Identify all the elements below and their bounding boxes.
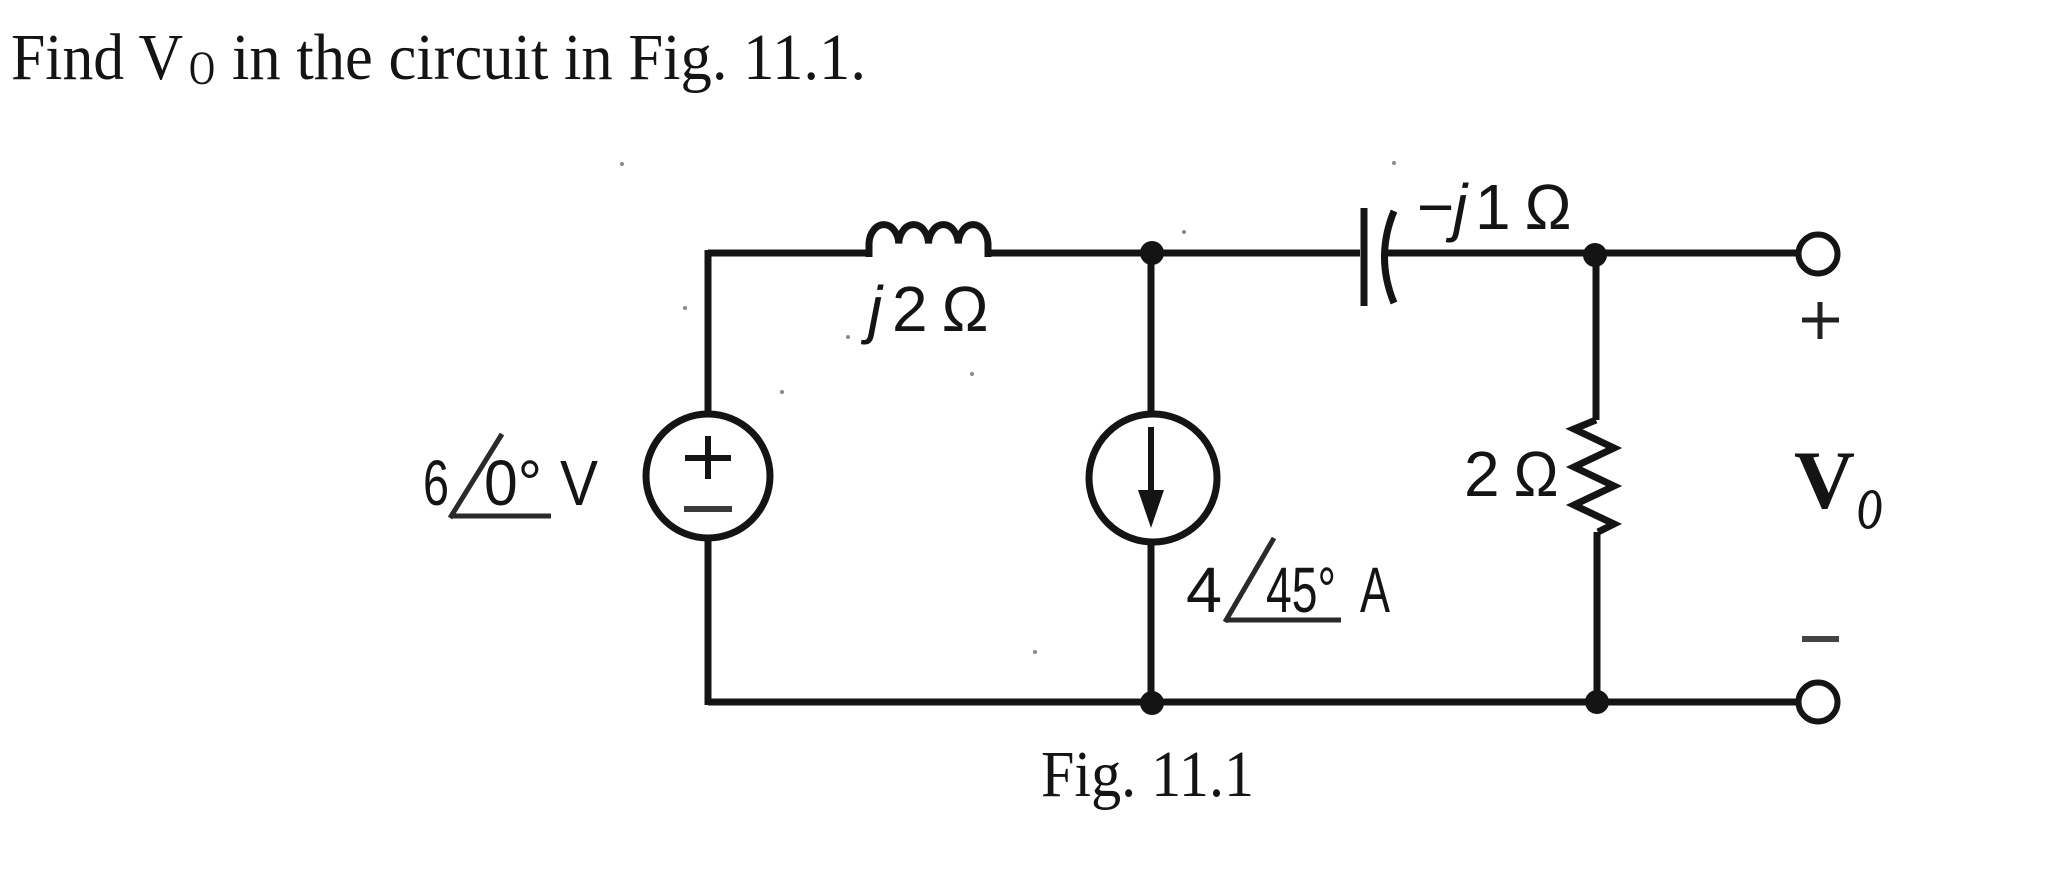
svg-text:Ω: Ω (1524, 171, 1572, 243)
terminal top right (1799, 235, 1838, 274)
current source I1 circle (1089, 414, 1217, 542)
title text (11, 21, 866, 95)
wire right vertical lower (1594, 532, 1601, 702)
inductor L1 j2 ohm (869, 225, 988, 257)
svg-text:−: − (1417, 171, 1454, 243)
dust specks (620, 161, 1396, 654)
svg-text:2: 2 (1464, 438, 1500, 510)
angle symbol for 6 angle 0 (450, 434, 551, 518)
svg-text:in the circuit in Fig. 11.1.: in the circuit in Fig. 11.1. (232, 21, 866, 94)
svg-text:V: V (560, 447, 598, 519)
capacitor C1 left plate (1361, 208, 1368, 306)
node C junction dot bottom middle (1140, 691, 1164, 715)
voltage source plus sign (685, 436, 731, 479)
svg-text:1: 1 (1475, 171, 1511, 243)
bottom wire (708, 699, 1798, 706)
output plus sign (1802, 302, 1839, 339)
angle symbol for 4 angle 45 (1225, 538, 1341, 622)
voltage source minus sign (684, 506, 732, 512)
svg-text:4: 4 (1186, 554, 1222, 626)
wire middle vertical lower (1148, 543, 1155, 702)
current source arrowhead (1138, 490, 1164, 528)
wire top-left horizontal (708, 250, 869, 257)
svg-text:Ω: Ω (941, 273, 989, 345)
svg-text:V: V (1794, 434, 1855, 526)
wire middle vertical upper (1148, 253, 1155, 413)
wire capacitor to right terminal (1384, 250, 1798, 257)
svg-text:Find V: Find V (11, 21, 183, 94)
svg-text:o: o (1857, 458, 1883, 546)
current source arrow shaft (1148, 427, 1154, 498)
capacitor C1 right plate (1385, 211, 1395, 303)
svg-text:A: A (1360, 554, 1390, 626)
svg-text:0°: 0° (484, 447, 542, 519)
wire right vertical upper (1593, 255, 1600, 420)
node A junction dot top middle (1140, 241, 1164, 265)
node B junction dot top right (1583, 243, 1607, 267)
svg-text:Fig. 11.1: Fig. 11.1 (1041, 738, 1254, 811)
wire left vertical lower (705, 538, 712, 705)
wire inductor to capacitor (988, 250, 1360, 257)
svg-text:Ω: Ω (1513, 438, 1559, 510)
node D junction dot bottom right (1585, 690, 1609, 714)
svg-text:j: j (860, 273, 884, 345)
svg-text:2: 2 (892, 273, 928, 345)
svg-text:O: O (189, 42, 215, 95)
svg-text:45°: 45° (1266, 554, 1336, 626)
voltage source V1 circle (646, 414, 770, 538)
svg-text:6: 6 (423, 447, 449, 519)
terminal bottom right (1799, 683, 1838, 722)
wire left vertical upper (705, 250, 712, 413)
resistor R1 2 ohm zigzag (1574, 420, 1614, 532)
output minus sign (1802, 636, 1839, 642)
